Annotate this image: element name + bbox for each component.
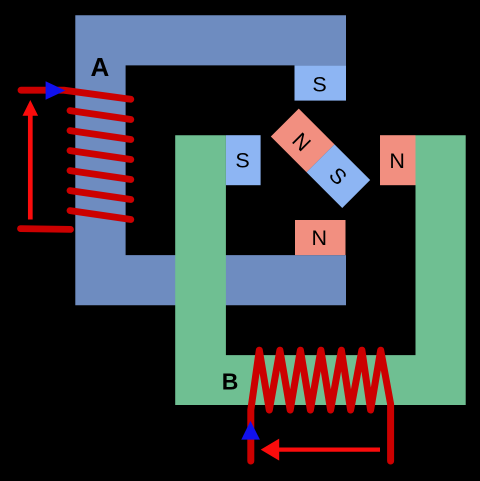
- coil A: current direction arrow (blue): [46, 81, 66, 100]
- coil A: top lead wire: [21, 90, 131, 99]
- core B (green U-core, open top): [175, 135, 466, 405]
- coil B: voltage arrow (red, left): [279, 448, 380, 452]
- coil A: winding turn 4: [70, 151, 131, 160]
- coil A: winding turn 7: [70, 211, 131, 220]
- pole piece N of core A (pink): [295, 220, 346, 255]
- coil A: winding turn 2: [70, 111, 131, 120]
- coil A: winding turn 3: [70, 131, 131, 140]
- svg-text:S: S: [235, 149, 249, 173]
- coil B: current direction arrow (blue, up): [241, 421, 260, 440]
- rotor magnet (rotated bar, N pink / S light blue): [271, 109, 370, 208]
- pole piece S of core A (light blue): [295, 65, 347, 100]
- svg-text:N: N: [389, 149, 405, 173]
- svg-text:A: A: [91, 52, 110, 82]
- coil B: zigzag winding wire: [251, 350, 391, 461]
- coil A: bottom lead wire: [21, 225, 71, 233]
- pole piece S of core B (light blue): [226, 135, 261, 185]
- coil A: voltage arrow (red, up): [28, 114, 33, 220]
- core A (blue C-core, open right): [75, 15, 346, 305]
- svg-text:N: N: [312, 226, 328, 250]
- coil A: winding turn 6: [70, 191, 131, 200]
- pole piece N of core B (pink): [380, 135, 416, 185]
- coil A: winding turn 5: [70, 171, 131, 180]
- svg-text:S: S: [312, 73, 326, 97]
- svg-text:B: B: [222, 369, 239, 395]
